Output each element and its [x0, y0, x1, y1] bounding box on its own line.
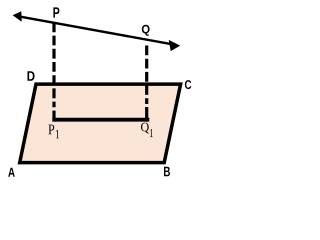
- plane ABCD (parallelogram): [20, 84, 181, 163]
- segment Q1 corner vertical: [145, 107, 148, 122]
- segment P1 corner vertical: [52, 111, 55, 122]
- label Q1: [141, 123, 149, 134]
- label B: [164, 167, 170, 177]
- label P: [53, 7, 59, 17]
- label C: [185, 80, 191, 89]
- label Q: [142, 25, 150, 36]
- label P1: [48, 125, 54, 135]
- perpendicular PP1 (dashed): [52, 22, 55, 107]
- line PQ (double arrow): [13, 11, 181, 51]
- segment P1Q1: [52, 118, 149, 122]
- arrowhead right: [169, 40, 181, 51]
- perpendicular QQ1 (dashed): [145, 46, 148, 105]
- label D: [27, 71, 34, 81]
- label A: [8, 168, 15, 177]
- arrowhead left: [13, 11, 22, 22]
